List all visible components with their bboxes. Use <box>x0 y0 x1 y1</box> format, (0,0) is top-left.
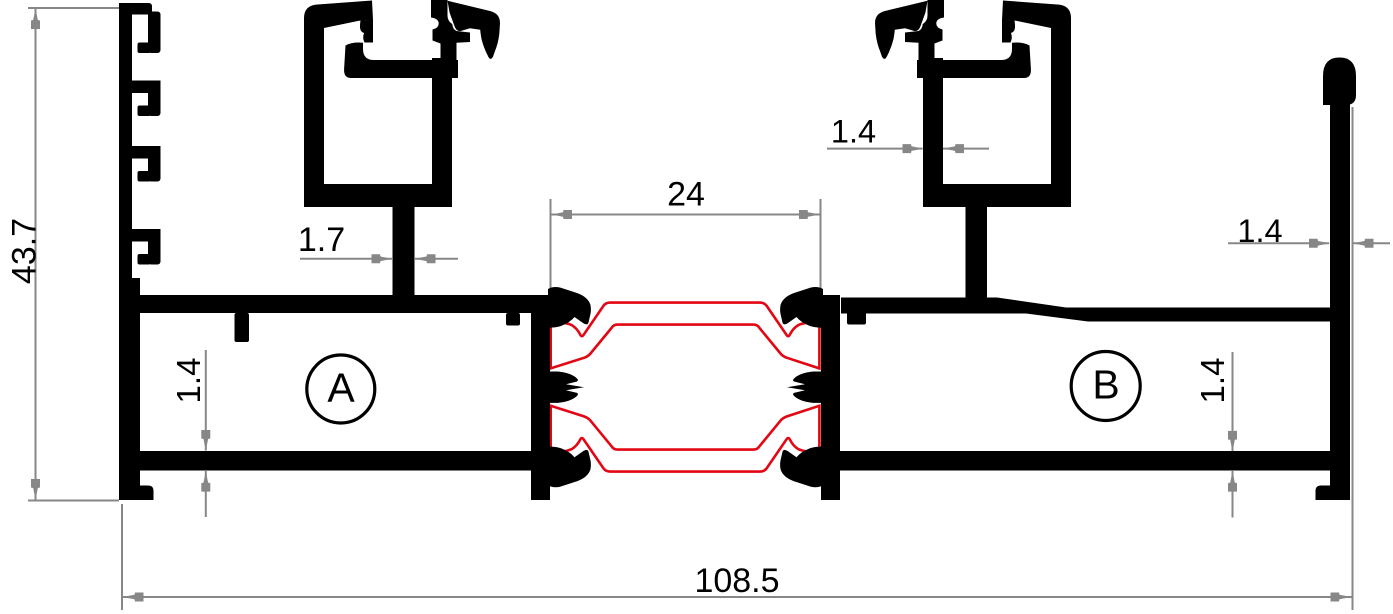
dimension 24 line <box>551 214 820 216</box>
thermal break strip bottom <box>551 406 820 472</box>
right wall bulb <box>1323 58 1356 106</box>
hook 2 <box>131 81 161 117</box>
dimension 1.7 (left stem wall) <box>300 258 392 260</box>
chamber A bottom bar <box>119 451 549 471</box>
right outer wall <box>1330 100 1350 500</box>
chamber A tab 2 <box>506 313 520 326</box>
chamber B bottom bar <box>823 451 1348 471</box>
dimension 24 extension lines <box>550 199 552 292</box>
svg-text:1.4: 1.4 <box>1237 213 1282 249</box>
dimension 108.5 line <box>123 596 1352 598</box>
right wall foot <box>1316 486 1332 501</box>
svg-text:1.4: 1.4 <box>170 358 207 404</box>
glazing channel right <box>875 0 1071 207</box>
svg-text:B: B <box>1092 362 1119 408</box>
dovetail mid-left <box>550 372 584 403</box>
left frame wall upper <box>119 3 132 290</box>
svg-text:1.4: 1.4 <box>831 114 876 150</box>
hook 1 <box>138 12 161 54</box>
svg-text:24: 24 <box>667 176 705 214</box>
chamber label B <box>1071 352 1140 421</box>
dimension 43.7 extension line bottom <box>28 500 119 502</box>
glazing channel left <box>304 0 500 207</box>
dimension 1.4 (chamber A bottom wall) <box>205 350 207 451</box>
dimension 1.4 (chamber B bottom wall) <box>1232 352 1234 451</box>
hook 4 <box>131 229 161 265</box>
hook 3 <box>131 146 161 182</box>
center left column <box>531 295 550 500</box>
svg-text:108.5: 108.5 <box>694 562 779 600</box>
dimension 43.7 line <box>35 8 37 500</box>
dovetail mid-right <box>787 372 821 403</box>
left frame wall cap <box>119 3 152 15</box>
center right column <box>821 295 840 500</box>
dimension 1.4 (right channel wall) <box>827 148 923 150</box>
left frame wall foot <box>138 486 154 501</box>
chamber A tab 1 <box>235 313 250 342</box>
dovetail bottom-left <box>548 447 591 488</box>
dimension 108.5 extension line left <box>121 504 123 610</box>
left frame wall lower <box>119 278 140 500</box>
thermal break strip top <box>551 303 820 369</box>
svg-text:1.4: 1.4 <box>1194 358 1231 404</box>
svg-text:A: A <box>327 365 355 411</box>
chamber A top rail <box>131 295 550 313</box>
chamber B tab <box>847 311 866 325</box>
svg-text:1.7: 1.7 <box>298 221 345 259</box>
dovetail top-left <box>548 287 591 328</box>
chamber B top rail <box>841 298 1332 322</box>
glazing channel left stem <box>393 203 415 297</box>
chamber label A <box>307 355 375 423</box>
dimension 43.7 extension line top <box>28 7 122 9</box>
dimension 1.4 (right outer wall) <box>1228 242 1329 244</box>
dovetail bottom-right <box>780 447 823 488</box>
dimension 108.5 extension line right <box>1352 107 1354 610</box>
dovetail top-right <box>780 287 823 328</box>
svg-text:43.7: 43.7 <box>6 218 44 284</box>
glazing channel right stem <box>966 203 988 300</box>
